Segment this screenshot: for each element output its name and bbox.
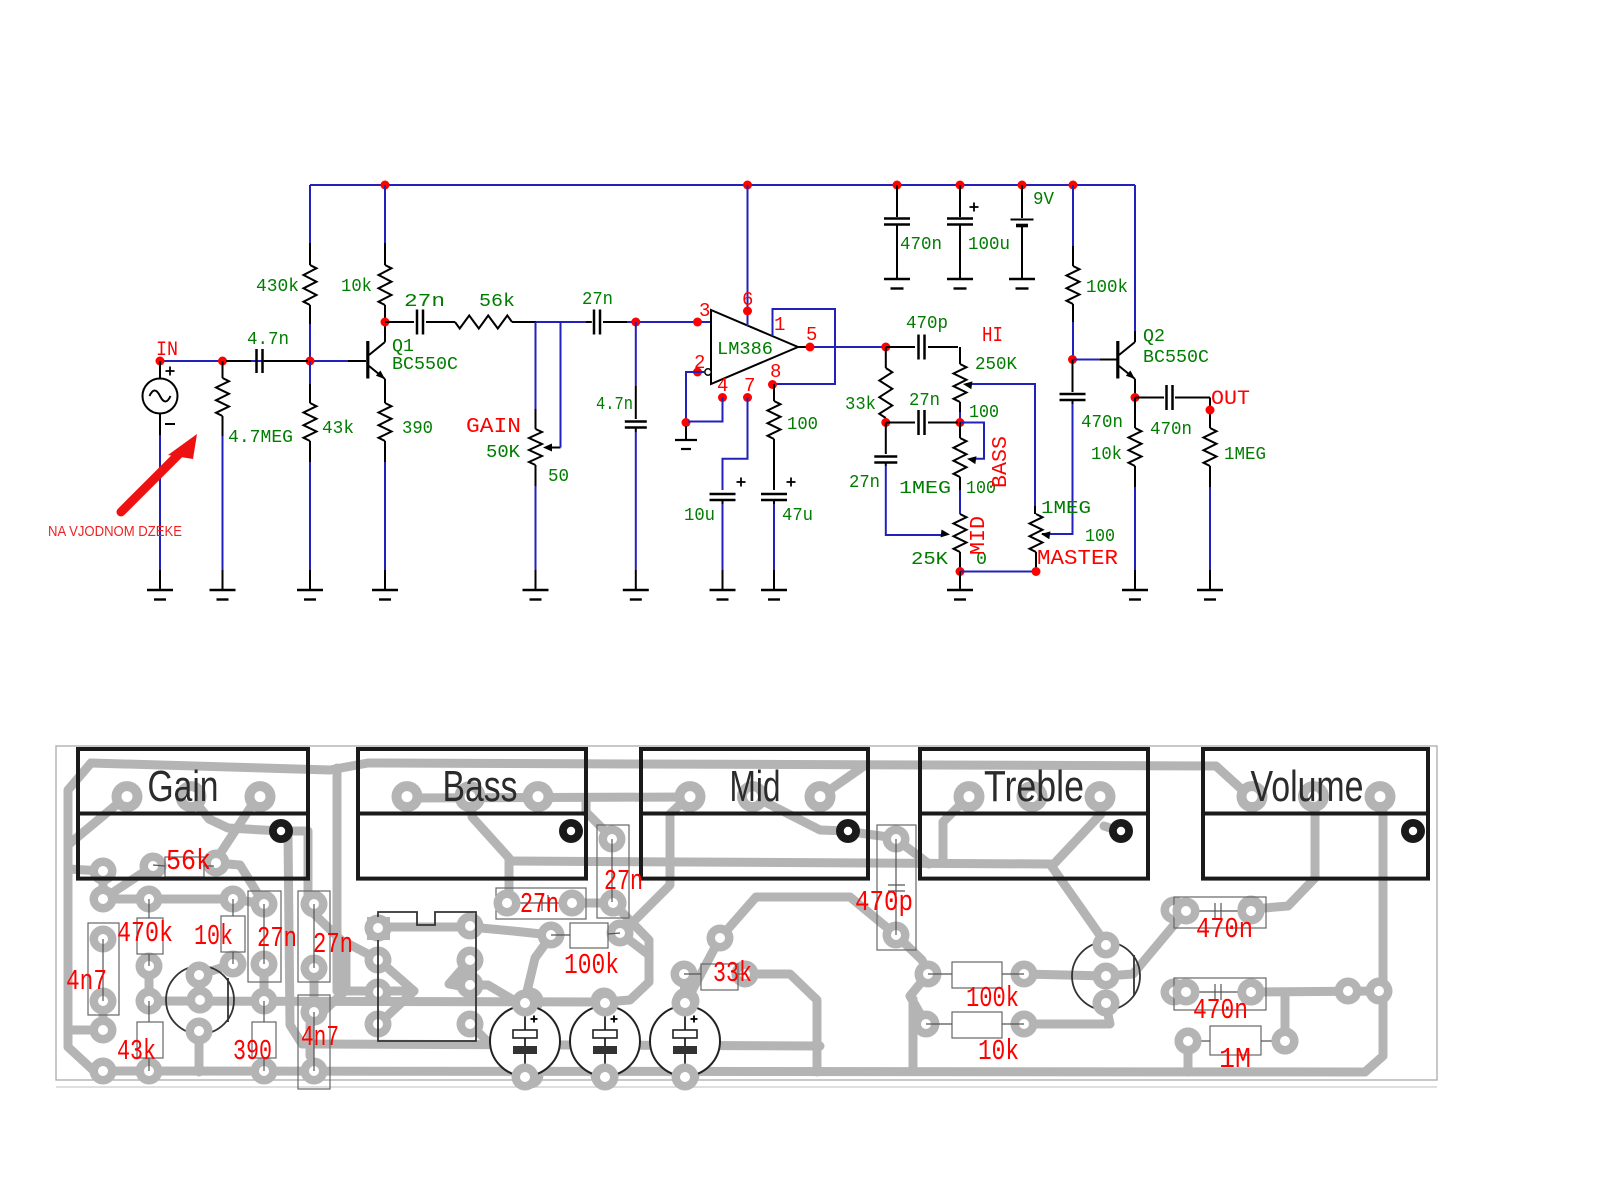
trace: volume mid pad to 470n xyxy=(1253,796,1315,909)
resistor 10k (Q1 collector) xyxy=(384,185,386,243)
svg-text:390: 390 xyxy=(402,419,433,439)
capacitor 470n supply xyxy=(896,185,898,217)
trace: bass row branch to 27n col xyxy=(586,798,612,838)
svg-text:1MEG: 1MEG xyxy=(899,479,951,499)
trace: IC top link to 100k xyxy=(378,927,551,935)
potentiometer HI 250K treble xyxy=(959,347,961,364)
resistor 43k body on PCB xyxy=(137,1022,163,1058)
trace: volume right pad tall drop xyxy=(1365,796,1383,1072)
trace: IC pin link to mid run xyxy=(470,1024,490,1044)
ground (390) xyxy=(372,589,398,591)
svg-text:5: 5 xyxy=(806,324,817,346)
transistor Q2 on PCB xyxy=(1072,942,1140,1010)
trace: cap3 top link xyxy=(685,938,720,1004)
ground (battery) xyxy=(1009,278,1035,280)
node: 4.7MEG tap xyxy=(218,357,227,366)
battery 9V xyxy=(1021,185,1023,218)
svg-text:470n: 470n xyxy=(1081,413,1123,433)
trace: mid right pad up-link xyxy=(821,766,864,796)
svg-text:Gain: Gain xyxy=(148,762,219,811)
node: rail junction at 10k xyxy=(381,181,390,190)
svg-text:56k: 56k xyxy=(166,845,211,878)
resistor 1M body on PCB xyxy=(1210,1026,1261,1055)
wire: 9V supply rail xyxy=(310,184,1135,186)
IC U1 outline on PCB xyxy=(378,912,476,1041)
node OUT xyxy=(1209,398,1211,429)
capacitor 47u xyxy=(761,493,787,496)
trace: 470p top to donut xyxy=(852,832,896,838)
ground (43k) xyxy=(297,589,323,591)
node: rail junction 470n xyxy=(893,181,902,190)
ground (gain pot) xyxy=(523,589,549,591)
trace: gap vertical from top bus xyxy=(333,768,342,991)
capacitor 27n (bass shunt) xyxy=(885,423,887,455)
node: bass top xyxy=(956,418,965,427)
svg-text:MID: MID xyxy=(968,516,991,555)
svg-text:10u: 10u xyxy=(684,506,715,526)
node: mid bottom xyxy=(956,567,965,576)
capacitor 470p body on PCB xyxy=(877,825,916,950)
svg-text:Q2: Q2 xyxy=(1143,327,1165,347)
trace: gain pad1 drop xyxy=(68,796,127,845)
svg-text:33k: 33k xyxy=(845,395,876,415)
trace: 33k right drop xyxy=(745,974,817,1072)
trace: 10k to transistor xyxy=(199,964,233,975)
svg-text:250K: 250K xyxy=(975,355,1017,375)
ground (470n supply) xyxy=(884,278,910,280)
svg-text:Treble: Treble xyxy=(984,762,1084,811)
resistor 100k (Q2 base bias) xyxy=(1072,185,1074,246)
trace: gain pad3 to 56k xyxy=(214,796,258,863)
op-amp U1 LM386 xyxy=(711,310,798,384)
pin 1-8 feedback loop xyxy=(773,309,836,384)
trace: IC left big jog xyxy=(378,959,415,1025)
trace: 10k left drop to bus xyxy=(909,999,918,1071)
svg-text:4.7MEG: 4.7MEG xyxy=(228,428,293,448)
potentiometer Volume on PCB xyxy=(1237,781,1268,812)
trace: 4n7 bottom link xyxy=(68,1001,103,1030)
svg-text:56k: 56k xyxy=(479,292,515,312)
resistor 390 body on PCB xyxy=(252,1022,276,1058)
ground (4.7MEG) xyxy=(210,589,236,591)
trace: 470k-43k link xyxy=(145,966,154,1001)
trace: tone mid spaghetti xyxy=(720,897,896,938)
capacitor 4n7 body on PCB (left) xyxy=(88,923,119,1015)
trace: 100k right to cap2 top xyxy=(605,933,649,1002)
node: rail junction 9V battery xyxy=(1018,181,1027,190)
node: 33k bottom xyxy=(881,418,890,427)
trace: 470p top to bus xyxy=(896,839,929,864)
svg-text:10k: 10k xyxy=(341,277,372,297)
svg-text:1: 1 xyxy=(774,314,785,336)
resistor 43k xyxy=(309,361,311,384)
wire: 56k to gain pot / wiper bus xyxy=(536,321,592,323)
resistor 100 (pin8 to 47u) xyxy=(773,384,775,401)
svg-text:MASTER: MASTER xyxy=(1037,548,1118,571)
svg-text:100: 100 xyxy=(787,415,818,435)
trace: 10k right to transistor bottom xyxy=(1024,1005,1110,1024)
svg-text:27n: 27n xyxy=(313,928,353,961)
svg-text:4n7: 4n7 xyxy=(301,1021,339,1054)
trace: 27n-h to 27n-col link xyxy=(572,899,613,908)
trace: mid pot left pad drop xyxy=(670,796,689,861)
resistor 390 (Q1 emitter) xyxy=(379,403,392,441)
trace: IC pin3 links xyxy=(337,987,414,996)
svg-text:7: 7 xyxy=(744,375,755,397)
gain pot wiper xyxy=(548,447,561,449)
svg-text:BC550C: BC550C xyxy=(1143,348,1209,368)
svg-text:430k: 430k xyxy=(256,277,299,297)
svg-text:8: 8 xyxy=(770,361,781,383)
wire: 27n to pin3 xyxy=(627,321,710,323)
capacitor 4n7 body on PCB (col2 lower) xyxy=(298,995,330,1089)
svg-text:33k: 33k xyxy=(713,957,752,990)
trace: 33k left to cap3 xyxy=(684,974,685,1004)
capacitor 4.7n input xyxy=(226,360,251,362)
svg-text:27n: 27n xyxy=(520,888,559,921)
pin 5 output wire xyxy=(798,346,811,348)
trace: top long bus xyxy=(91,763,1249,796)
trace: treble right pad drop xyxy=(1052,798,1101,866)
trace: 470p bottom link xyxy=(896,935,928,973)
pin 2 wire to ground xyxy=(693,368,702,377)
svg-text:2: 2 xyxy=(694,352,705,374)
svg-text:100k: 100k xyxy=(564,949,619,982)
resistor 10k (Q2 emitter) xyxy=(1134,398,1136,429)
svg-text:BASS: BASS xyxy=(990,436,1013,488)
svg-text:Volume: Volume xyxy=(1251,762,1364,811)
trace: 470n top to transistor xyxy=(1106,911,1186,976)
trace: 100k left to cap1 xyxy=(524,936,551,1004)
pin 3 mark xyxy=(693,318,702,327)
svg-text:100: 100 xyxy=(1085,527,1115,547)
trace: pad row horizontal xyxy=(103,895,233,904)
svg-text:OUT: OUT xyxy=(1211,388,1250,411)
capacitor 10u (pin7 bypass) xyxy=(710,493,736,496)
ground (pin2/4) xyxy=(675,440,697,449)
trace: 56k to left pads xyxy=(103,866,153,899)
svg-text:1MEG: 1MEG xyxy=(1224,445,1266,465)
svg-text:100: 100 xyxy=(969,403,999,423)
ground (mid pot) xyxy=(947,589,973,591)
ground (4.7n) xyxy=(623,589,649,591)
svg-text:470n: 470n xyxy=(1193,994,1248,1027)
svg-text:Q1: Q1 xyxy=(392,337,414,357)
master wiper xyxy=(1042,533,1048,535)
svg-text:NA VJODNOM DZEKE: NA VJODNOM DZEKE xyxy=(48,523,182,540)
trace: S-path right of gain xyxy=(281,831,346,1056)
svg-text:27n: 27n xyxy=(604,865,643,898)
ground (10u) xyxy=(710,589,736,591)
capacitor 27n (Q1 out) xyxy=(385,321,414,323)
svg-text:470p: 470p xyxy=(855,886,913,919)
svg-text:6: 6 xyxy=(742,289,753,311)
svg-text:Bass: Bass xyxy=(443,762,518,811)
wire: input node to Q1 base xyxy=(160,360,348,362)
source V1 sine generator xyxy=(143,379,178,414)
trace: treble donut stub xyxy=(1104,826,1122,832)
svg-text:Mid: Mid xyxy=(730,762,781,811)
resistor 1MEG output load xyxy=(1204,428,1217,466)
capacitor 470n (Q2 base chain) xyxy=(1072,360,1074,393)
trace: 1M left pad to bus xyxy=(1184,1041,1193,1072)
svg-text:27n: 27n xyxy=(404,292,445,312)
wire: rail drop to 430k xyxy=(309,185,311,243)
ground (1MEG) xyxy=(1197,589,1223,591)
trace: IC right jog xyxy=(449,960,470,988)
capacitor 470n body on PCB (bottom) xyxy=(1174,978,1266,1010)
capacitor 27n body on PCB (bass-mid) xyxy=(597,825,629,918)
svg-text:10k: 10k xyxy=(1091,445,1122,465)
trace: 100k right to transistor mid xyxy=(1024,974,1106,976)
svg-text:4n7: 4n7 xyxy=(66,965,107,998)
node: rail junction pin6 feed xyxy=(743,181,752,190)
transistor Q1 BC550C xyxy=(366,341,369,379)
ground (Q2 10k) xyxy=(1122,589,1148,591)
capacitor 27n (to LM386) xyxy=(586,321,591,323)
svg-text:1M: 1M xyxy=(1219,1043,1251,1076)
svg-text:470n: 470n xyxy=(1196,913,1253,946)
svg-text:43k: 43k xyxy=(117,1035,156,1068)
trace: bottom bus xyxy=(94,1071,1365,1072)
svg-text:27n: 27n xyxy=(257,922,297,955)
svg-text:27n: 27n xyxy=(849,473,880,493)
capacitor 470n body on PCB (top) xyxy=(1174,897,1266,928)
trace: treble left pad drop xyxy=(943,796,969,861)
svg-text:27n: 27n xyxy=(582,290,613,310)
svg-text:25K: 25K xyxy=(911,550,948,570)
capacitor 100u supply xyxy=(959,185,961,217)
ground (47u) xyxy=(761,589,787,591)
svg-text:10k: 10k xyxy=(194,920,233,953)
svg-text:100k: 100k xyxy=(1086,278,1128,298)
trace: 27n-390 link xyxy=(260,964,269,1001)
svg-text:9V: 9V xyxy=(1033,190,1054,210)
trace: 100k right to bus xyxy=(620,861,670,935)
capacitor 27n body on PCB (horizontal) xyxy=(496,888,586,919)
svg-text:470n: 470n xyxy=(1150,420,1192,440)
annotation arrow NA VJODNOM DZEKE xyxy=(121,450,183,512)
svg-text:4.7n: 4.7n xyxy=(247,330,289,350)
svg-text:470n: 470n xyxy=(900,235,942,255)
svg-text:470p: 470p xyxy=(906,314,948,334)
svg-text:HI: HI xyxy=(982,325,1003,348)
trace: mid mid pad to donut xyxy=(753,796,848,831)
capacitor 4.7n (shunt at pin3) xyxy=(635,322,637,386)
node: base junction xyxy=(306,357,315,366)
PCB board outline xyxy=(56,746,1437,1080)
node: rail junction 100u xyxy=(956,181,965,190)
trace: 100k to 10k link xyxy=(910,974,928,1024)
node: rail junction 100k xyxy=(1069,181,1078,190)
resistor 100k body on PCB (right) xyxy=(952,962,1002,988)
svg-text:43k: 43k xyxy=(322,419,354,439)
node pin 8 xyxy=(768,380,777,389)
potentiometer Bass on PCB xyxy=(392,781,423,812)
pin 7 wire xyxy=(743,393,752,402)
node: master bottom xyxy=(1032,567,1041,576)
capacitor 470n output xyxy=(1135,397,1164,399)
transistor Q2 BC550C xyxy=(1068,355,1077,364)
trace: 1M right pad up xyxy=(1281,992,1290,1041)
svg-text:GAIN: GAIN xyxy=(466,416,521,439)
trace: bass pads row run xyxy=(409,797,688,798)
ground (source) xyxy=(147,589,173,591)
pin 6 supply wire xyxy=(747,185,749,326)
node IN xyxy=(156,357,165,366)
ground (100u) xyxy=(947,278,973,280)
trace: central bus xyxy=(509,861,1104,941)
trace: 470n bottom right run xyxy=(1251,991,1379,992)
svg-text:100u: 100u xyxy=(968,235,1010,255)
potentiometer MID 25K xyxy=(954,514,967,552)
treble wiper xyxy=(966,383,972,385)
trace: pad row to 27n link xyxy=(233,899,264,904)
wire: rail drop to Q2 collector xyxy=(1134,185,1136,331)
capacitor 27n body on PCB col1 xyxy=(248,891,281,982)
resistor 10k body on PCB (right) xyxy=(952,1012,1002,1038)
svg-text:4: 4 xyxy=(717,375,728,397)
trace: left edge bus xyxy=(68,763,94,1071)
node: tone stack input xyxy=(881,343,890,352)
resistor 4.7MEG xyxy=(222,361,224,378)
potentiometer Mid on PCB xyxy=(675,781,706,812)
svg-text:50: 50 xyxy=(548,467,569,487)
trace: IC right pad to bottom run xyxy=(470,985,515,1001)
trace: bass mid pad drop to 27n xyxy=(472,800,509,903)
capacitor 27n body on PCB col2 xyxy=(298,891,330,982)
svg-text:BC550C: BC550C xyxy=(392,355,458,375)
node: pin2/4 ground node xyxy=(682,418,691,427)
trace: 27n col2 to 4n7 link xyxy=(310,968,319,1008)
pin 4 wire xyxy=(718,393,727,402)
resistor 56k body on PCB xyxy=(165,857,204,877)
electrolytic caps on PCB xyxy=(490,1006,560,1076)
resistor 10k body on PCB xyxy=(221,916,245,952)
trace: gap vertical to IC pin2 xyxy=(337,938,378,959)
svg-text:47u: 47u xyxy=(782,506,813,526)
resistor 33k body on PCB xyxy=(701,964,738,990)
node: pin3 input node xyxy=(631,318,640,327)
wire: 430k to base node xyxy=(309,324,311,361)
svg-text:50K: 50K xyxy=(486,443,520,463)
svg-text:27n: 27n xyxy=(909,391,940,411)
trace: 27n col bottom branch xyxy=(613,903,649,955)
resistor 56k xyxy=(455,316,512,329)
svg-text:LM386: LM386 xyxy=(717,340,773,360)
svg-text:100k: 100k xyxy=(966,982,1019,1015)
resistor 100k body on PCB (left) xyxy=(570,923,608,948)
transistor Q1 on PCB xyxy=(166,966,234,1034)
potentiometer Gain on PCB xyxy=(112,781,143,812)
svg-text:4.7n: 4.7n xyxy=(596,395,633,415)
resistor 470k body on PCB xyxy=(137,918,163,954)
node: Q1 collector xyxy=(381,318,390,327)
node: Q2 emitter xyxy=(1131,393,1140,402)
capacitor 27n (tone mid-cap) xyxy=(886,422,915,424)
potentiometer BASS 1MEG xyxy=(960,423,984,459)
potentiometer Treble on PCB xyxy=(954,781,985,812)
svg-text:3: 3 xyxy=(699,300,710,322)
svg-text:470k: 470k xyxy=(117,917,173,950)
svg-text:10k: 10k xyxy=(978,1035,1019,1068)
svg-text:1MEG: 1MEG xyxy=(1041,499,1091,519)
potentiometer MASTER 1MEG xyxy=(1034,506,1036,514)
potentiometer GAIN 50K xyxy=(535,409,537,429)
trace: transistor emitter drop xyxy=(195,1031,204,1072)
trace: bus to pad link xyxy=(68,869,103,899)
pads: component and via pads xyxy=(90,886,117,913)
trace: long horizontal mid-bottom xyxy=(149,1001,605,1002)
trace: 56k to 27n col link xyxy=(216,863,264,904)
capacitor 470p (treble) xyxy=(886,346,915,348)
svg-text:390: 390 xyxy=(233,1035,272,1068)
trace: gain mid pad to donut xyxy=(193,799,281,831)
resistor 430k xyxy=(309,243,311,265)
trace: caps mid long run xyxy=(288,834,820,1046)
resistor 33k xyxy=(885,347,887,368)
